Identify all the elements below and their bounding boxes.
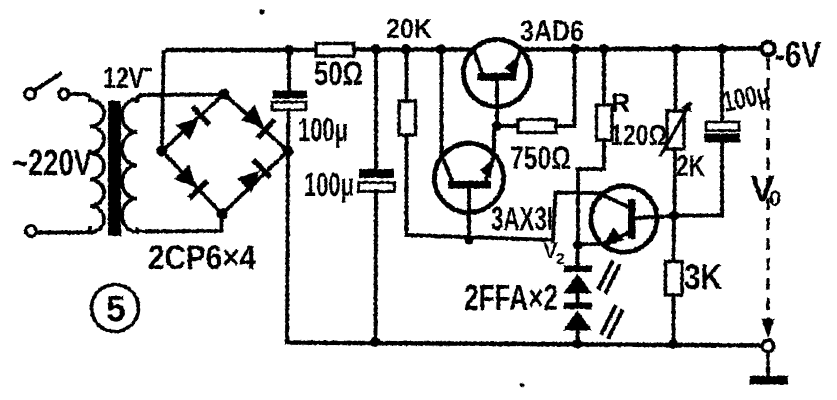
- svg-text:750Ω: 750Ω: [510, 140, 571, 176]
- node Q3 base junction: [669, 211, 679, 221]
- resistor 50ohm: [316, 44, 354, 57]
- mains switch S: [25, 74, 69, 99]
- output terminal -6V: [761, 42, 774, 55]
- wire negative top rail left of 50ohm: [168, 48, 316, 53]
- wire V2 lower diode to bottom rail: [576, 330, 580, 344]
- node rail at R 120ohm: [599, 44, 609, 54]
- wire rail to 20K: [405, 50, 409, 102]
- node bridge left vertex: [156, 145, 167, 156]
- svg-text:R: R: [611, 88, 631, 118]
- potentiometer 2K: [667, 111, 684, 149]
- capacitor C2 100u plate+: [359, 169, 394, 178]
- wire Q3 base junction to 3K: [672, 216, 676, 262]
- resistor 3K: [666, 262, 683, 296]
- capacitor C1 100u plate-: [272, 102, 306, 110]
- ground symbol: [766, 352, 770, 377]
- wire secondary top to bridge AC top node: [137, 95, 219, 102]
- svg-text:50Ω: 50Ω: [314, 55, 363, 93]
- node rail at C2: [371, 44, 381, 54]
- light arrows at upper diode: [599, 262, 612, 288]
- wire bridge arm bottom-right: [222, 151, 288, 214]
- node 3AX31 base junction: [464, 235, 474, 245]
- transistor Q2 3AX31: [435, 144, 504, 239]
- svg-text:120Ω: 120Ω: [610, 120, 667, 152]
- light arrows at lower diode: [602, 307, 615, 333]
- svg-text:2FFA×2: 2FFA×2: [464, 277, 558, 318]
- figure number 5 circled: [92, 285, 139, 332]
- wire 3AD6 base junction to 3AX31 collector: [492, 126, 496, 154]
- diode D1 bridge top-left: [174, 105, 211, 142]
- V0 dashed measurement arrow: [766, 58, 769, 321]
- wire rail to R: [602, 49, 606, 105]
- wire reference node to V2 diodes: [576, 245, 580, 266]
- wire negative top rail 50ohm to 3AD6: [354, 47, 474, 52]
- wire 2K to Q3 base junction: [673, 149, 677, 215]
- svg-text:20K: 20K: [386, 13, 432, 44]
- resistor 750ohm: [518, 120, 556, 133]
- wire rail to C3: [720, 49, 724, 122]
- svg-text:3AX3I: 3AX3I: [491, 200, 553, 237]
- svg-text:100μ: 100μ: [298, 111, 348, 148]
- wire rail to C1: [287, 50, 291, 92]
- transformer core: [108, 101, 121, 236]
- svg-text:2K: 2K: [676, 150, 705, 183]
- node rail at C3: [717, 44, 727, 54]
- speck: [259, 9, 264, 14]
- wire switch to transformer primary top: [69, 94, 90, 100]
- wire bottom rail: [287, 343, 762, 346]
- svg-text:3K: 3K: [684, 258, 722, 297]
- transistor Q3 comparison amplifier: [591, 186, 674, 252]
- capacitor C3 100u plate+: [705, 134, 741, 143]
- svg-text:2: 2: [556, 251, 565, 268]
- wire bridge arm bottom-left: [162, 151, 222, 214]
- resistor R 120ohm: [597, 105, 613, 140]
- svg-text:0: 0: [769, 186, 781, 211]
- node rail at 20K: [401, 44, 411, 54]
- wire bridge right vertex down to bottom rail: [287, 151, 288, 342]
- speck: [520, 383, 524, 387]
- wire negative top rail right of 3AD6: [520, 49, 762, 50]
- node rail at 750ohm: [570, 44, 580, 54]
- node rail at 3AX31 emitter: [436, 44, 446, 54]
- wire bridge bottom vertex stub: [220, 214, 224, 231]
- wire 750ohm to rail: [556, 49, 575, 126]
- wire 20K to base rail wire: [407, 135, 554, 240]
- wire bridge left vertex up to negative rail corner: [162, 50, 170, 150]
- node rail at C1: [284, 45, 294, 55]
- terminal circle bottom-left: [26, 226, 37, 237]
- wire base rail up to Q3 collector: [553, 193, 599, 242]
- diode V2 upper 2FFA: [564, 266, 592, 273]
- svg-text:100μ: 100μ: [304, 166, 354, 203]
- wire C2 to bottom rail: [374, 192, 378, 343]
- wire secondary bottom to bridge AC bottom node: [137, 229, 218, 232]
- node bottom rail at V2: [573, 339, 583, 349]
- node bridge top vertex: [218, 88, 229, 99]
- svg-text:100μ: 100μ: [720, 78, 773, 119]
- svg-text:-6V: -6V: [775, 34, 821, 75]
- wire C1 to bridge right vertex: [286, 110, 290, 151]
- wire bridge arm top-right: [224, 94, 288, 151]
- node rail at 2K: [671, 44, 681, 54]
- svg-text:2CP6×4: 2CP6×4: [148, 239, 256, 277]
- wire rail to 2K: [674, 49, 678, 111]
- svg-text:12V: 12V: [103, 62, 144, 95]
- capacitor C3 100u plate-: [706, 122, 739, 131]
- svg-text:5: 5: [106, 288, 126, 329]
- wire bridge arm top-left: [162, 94, 224, 151]
- diode D2 bridge top-right: [239, 103, 276, 140]
- wire Q3 emitter to reference node: [578, 242, 606, 246]
- node bottom rail at 3K: [669, 339, 679, 349]
- transformer secondary winding: [122, 99, 137, 232]
- wire R to reference node: [578, 140, 604, 245]
- wire 3K to bottom rail: [672, 295, 676, 344]
- diode D3 bridge bottom-left: [172, 163, 209, 200]
- node bottom rail at C2: [371, 337, 381, 347]
- capacitor C1 100u plate+: [273, 91, 308, 99]
- diode D4 bridge bottom-right: [235, 158, 272, 195]
- transistor Q1 3AD6: [464, 40, 531, 127]
- node bridge bottom vertex: [216, 208, 227, 219]
- wire C3 to Q3 base wire: [674, 143, 722, 216]
- diode V2 lower 2FFA: [564, 303, 592, 310]
- svg-text:~220V: ~220V: [12, 142, 92, 183]
- wire rail to C2: [374, 50, 378, 171]
- svg-text:3AD6: 3AD6: [520, 15, 584, 48]
- node reference junction V2 top: [573, 240, 583, 250]
- wire 3AD6 base to 750ohm: [497, 124, 518, 128]
- terminal circle bottom ground: [762, 340, 774, 352]
- wire bottom terminal to primary bottom: [37, 228, 90, 233]
- wire between V2 diodes: [576, 293, 580, 303]
- node 3AD6 base junction: [492, 121, 502, 131]
- transformer primary winding: [90, 100, 104, 233]
- resistor 20K: [399, 101, 416, 135]
- wire rail to 3AX31 emitter: [440, 50, 444, 157]
- node bridge right vertex: [282, 145, 293, 156]
- capacitor C2 100u plate-: [359, 183, 395, 192]
